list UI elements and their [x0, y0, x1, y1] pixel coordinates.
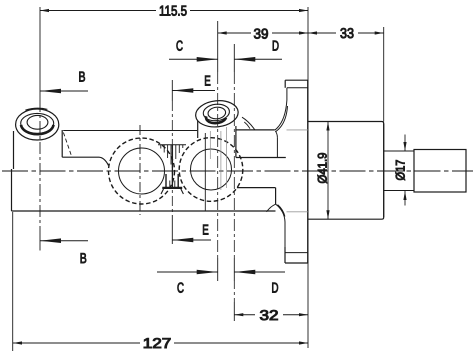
leader D top	[234, 58, 282, 60]
port circle 2 inner	[191, 149, 232, 190]
leader C bottom	[157, 271, 218, 273]
extension line E top	[171, 80, 173, 101]
extension line 127 left	[12, 212, 14, 351]
flange left face top	[284, 80, 286, 88]
boss E hole chamfer thick arc	[206, 116, 226, 123]
bore silhouette line right	[226, 127, 228, 188]
boss E outer ellipse	[194, 99, 239, 129]
dim 115.5 line	[40, 10, 308, 12]
svg-text:Ø41.9: Ø41.9	[315, 152, 329, 183]
centerline main horizontal axis	[2, 170, 473, 172]
leader E top	[172, 90, 215, 92]
bore silhouette line left	[204, 133, 206, 211]
svg-text:E: E	[204, 74, 211, 90]
leader D bottom	[234, 271, 285, 273]
extension line right of 33	[383, 27, 385, 122]
leader B top	[40, 90, 88, 92]
flange hidden edge top (gray)	[287, 129, 308, 131]
top block top edge	[236, 129, 275, 131]
dim 115.5 arrowheads	[40, 9, 49, 12]
boss E left side	[197, 121, 199, 139]
bottom bracket posts	[166, 174, 178, 188]
centerline D axis	[233, 44, 235, 72]
extension D axis bottom	[233, 302, 235, 321]
end block outline	[414, 150, 466, 193]
boss B back rim arc	[25, 108, 47, 110]
leader B bottom	[40, 240, 88, 242]
dim 33 arrowheads	[308, 31, 317, 34]
gusset slant right of boss B (hidden)	[63, 133, 71, 157]
svg-text:C: C	[176, 39, 183, 55]
boss B chamfer crescent	[21, 125, 54, 134]
bottom bracket legs	[161, 189, 183, 194]
svg-text:115.5: 115.5	[159, 4, 187, 20]
boss E right side	[235, 126, 237, 158]
boss B outer ellipse	[16, 109, 59, 140]
body bottom edge	[12, 210, 276, 212]
svg-text:B: B	[79, 70, 86, 86]
rib top edge between bosses	[63, 130, 197, 132]
cylinder 41.9 outline	[308, 122, 384, 220]
flange right face	[307, 80, 309, 263]
svg-text:B: B	[80, 251, 87, 267]
flange S-curve bottom	[276, 204, 285, 246]
port circle 1 outer	[109, 138, 175, 204]
svg-text:32: 32	[260, 308, 279, 324]
top block right edge	[276, 137, 278, 157]
svg-text:Ø17: Ø17	[394, 159, 408, 180]
port circle 2 outer	[179, 138, 243, 202]
boss B ring ellipse	[21, 113, 54, 133]
boss B hole ellipse	[27, 115, 48, 129]
flange top edge	[285, 79, 308, 81]
dim 39 line	[218, 32, 308, 34]
extension line left (B axis top)	[39, 7, 41, 100]
bottom bracket bar	[162, 187, 182, 189]
dim 33 line	[308, 32, 384, 34]
flange left face bottom	[284, 246, 286, 263]
dim Ø17 lines	[404, 135, 406, 206]
spout inner arc	[244, 122, 250, 129]
svg-text:C: C	[177, 281, 184, 297]
barrel top edge right segment	[236, 157, 286, 159]
leader C top	[169, 58, 218, 60]
bottom block right edge	[275, 188, 277, 205]
flange hidden edge bottom (gray)	[287, 211, 308, 213]
centerline C axis	[217, 72, 219, 258]
svg-text:127: 127	[143, 336, 172, 352]
cylinder right edge	[383, 124, 385, 218]
port circle 1 inner	[119, 148, 165, 194]
flange hook top	[275, 131, 277, 137]
dim Ø41.9 line	[327, 122, 329, 220]
bottom bracket inner marks	[170, 181, 175, 188]
flange hook bottom	[267, 204, 276, 212]
flange bottom edge	[285, 262, 308, 264]
neck top edge	[384, 150, 414, 152]
neck bottom edge	[384, 190, 414, 192]
svg-text:E: E	[202, 223, 209, 239]
centerline E axis	[171, 101, 173, 215]
flange top step line	[287, 87, 308, 89]
dim 32 line	[234, 314, 308, 316]
svg-text:D: D	[272, 281, 279, 297]
web hatch strokes top funnel	[161, 145, 183, 165]
dim 127 line	[13, 342, 308, 344]
extension B axis bottom	[39, 228, 41, 251]
boss B right side	[61, 130, 63, 157]
extension line C axis top	[217, 21, 219, 72]
flange S-curve top	[275, 100, 288, 132]
extension line E bottom	[171, 215, 173, 244]
dim 39 arrowheads	[218, 31, 227, 34]
body left edge	[11, 169, 13, 211]
saddle line between circles	[158, 144, 186, 146]
svg-text:D: D	[272, 39, 279, 55]
svg-text:39: 39	[254, 27, 269, 43]
centerline B axis	[39, 100, 41, 228]
boss E bore hidden edges	[209, 131, 211, 159]
centerline circle 1 vertical	[139, 125, 141, 215]
spout arc boss E to block	[242, 117, 255, 130]
svg-text:33: 33	[340, 26, 354, 42]
boss B left side	[13, 131, 15, 169]
barrel bottom edge right segment	[237, 187, 276, 189]
web center stroke	[171, 145, 173, 188]
leader E bottom	[172, 239, 211, 241]
extension line flange axis (x=308)	[307, 7, 309, 348]
barrel top edge left segment	[62, 157, 108, 165]
flange bottom step line	[285, 252, 308, 254]
